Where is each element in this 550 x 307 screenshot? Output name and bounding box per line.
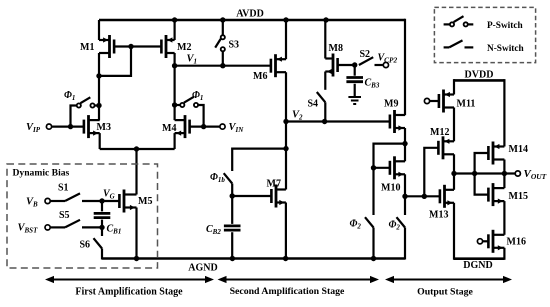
wire M11 drain to M12 source — [453, 108, 455, 142]
capacitor CB1 — [94, 212, 111, 215]
wire M4 gate to VIN — [190, 125, 220, 127]
wire M9 drain down to M10 — [404, 128, 406, 161]
wire CB1 node down to S6 — [101, 227, 103, 236]
transistor M7 — [271, 185, 286, 208]
node AVDD-S3 junction — [220, 17, 225, 22]
node M9-M10 junction — [402, 141, 407, 146]
node M10 source junction — [402, 194, 407, 199]
svg-text:M5: M5 — [138, 196, 152, 207]
transistor M9 — [390, 110, 405, 133]
transistor M2 — [161, 35, 174, 58]
node S3-V1 junction — [220, 63, 225, 68]
node S4-V2 junction — [322, 119, 327, 124]
node AVDD-M6 junction — [283, 17, 288, 22]
transistor M10 — [390, 156, 405, 179]
node V1 — [172, 63, 177, 68]
svg-text:Output Stage: Output Stage — [417, 287, 473, 298]
power rail DVDD — [454, 79, 504, 82]
legend dashed box — [434, 7, 535, 62]
wire CB3 to ground — [354, 84, 356, 97]
svg-text:M8: M8 — [329, 43, 343, 54]
wire AVDD to switch S3 — [222, 20, 224, 35]
terminal M16 gate — [477, 239, 482, 244]
svg-text:S5: S5 — [59, 210, 70, 221]
wire M7 gate node to M7 gate — [232, 195, 271, 197]
terminal M11 gate — [424, 98, 429, 103]
node AVDD-M8 junction — [323, 17, 328, 22]
wire AVDD to M8 top — [324, 20, 326, 59]
svg-text:M1: M1 — [80, 42, 94, 53]
wire PHI2 right to AGND rail end — [404, 228, 406, 260]
svg-text:M14: M14 — [509, 144, 528, 155]
node M12-M13 VOUT junction — [451, 171, 456, 176]
wire M8 gate node to CB3 — [354, 65, 356, 76]
wire V2 to M9 gate — [286, 120, 390, 122]
wire M4 source down — [174, 133, 176, 149]
wire M14 drain to VOUT node — [503, 160, 505, 189]
power rail AGND (bottom) — [102, 257, 405, 260]
svg-text:S2: S2 — [360, 49, 371, 60]
wire CB1 to S5 node — [101, 220, 103, 228]
switch S2 (N-switch) — [359, 57, 373, 65]
wire VB to switch S1 — [50, 200, 65, 202]
svg-text:M6: M6 — [253, 71, 267, 82]
wire M11 gate lead — [430, 100, 439, 102]
terminal VIP — [46, 124, 51, 129]
wire M12 drain to VOUT node and M13 drain — [453, 154, 455, 190]
node M14-M15 VOUT junction — [502, 171, 507, 176]
wire VIP to M3 gate — [52, 125, 85, 127]
node M7-AGND junction — [283, 256, 288, 261]
wire switch PHI1 right leads — [175, 104, 181, 106]
wire M10 source node to PHI2 right — [404, 196, 406, 215]
wire S1 to VG node and M5 gate — [82, 200, 119, 202]
power rail AVDD — [99, 19, 405, 22]
svg-text:M3: M3 — [97, 122, 111, 133]
svg-text:S4: S4 — [308, 99, 319, 110]
svg-text:AGND: AGND — [188, 263, 217, 274]
transistor M15 — [488, 183, 504, 206]
capacitor CB3 — [346, 76, 363, 79]
node V2 — [283, 119, 288, 124]
node PHI2left-AGND junction — [371, 256, 376, 261]
wire M6 drain to V2 and M7 drain — [285, 72, 287, 189]
node M2drain-PHI1 junction — [172, 102, 177, 107]
wire M13 source to DGND — [453, 203, 455, 260]
wire AVDD to M1 source — [98, 20, 100, 40]
wire PHI1b to M7 gate node — [231, 184, 233, 197]
wire V2 branch to PHI1b — [232, 149, 286, 171]
arrow second amplification stage span — [225, 279, 372, 281]
transistor M4 — [175, 115, 190, 138]
wire M5 source to AGND — [135, 208, 137, 259]
svg-text:S1: S1 — [58, 183, 69, 194]
dynamic bias dashed box — [7, 164, 158, 268]
wire S3 to node V1 — [222, 51, 224, 65]
wire VOUT — [454, 172, 515, 174]
node CB2-AGND junction — [230, 256, 235, 261]
node AVDD-M2 junction — [172, 17, 177, 22]
node M8 gate junction — [352, 62, 357, 67]
svg-text:First Amplification Stage: First Amplification Stage — [75, 287, 183, 298]
node VIN-switch junction — [201, 124, 206, 129]
transistor M16 — [488, 230, 504, 253]
arrow output stage span — [393, 279, 505, 281]
wire diode connection M1 — [99, 47, 131, 76]
switch PHI2 left (N-switch) — [365, 217, 374, 227]
switch PHI1b (N-switch) — [224, 173, 233, 183]
wire VG to capacitor CB1 — [101, 201, 103, 211]
wire M7 source to AGND — [285, 203, 287, 259]
node M7 gate junction — [230, 193, 235, 198]
node VIP-switch junction — [68, 124, 73, 129]
node tail junction — [134, 146, 139, 151]
svg-text:M9: M9 — [384, 98, 398, 109]
node gate tie-VOUT junction — [472, 171, 477, 176]
svg-text:Dynamic Bias: Dynamic Bias — [13, 168, 70, 179]
switch S6 (N-switch) — [94, 238, 103, 248]
wire M8 bottom to switch S4 — [324, 72, 326, 90]
wire M10 source down — [404, 174, 406, 196]
wire M3 source down — [99, 133, 101, 149]
wire M9 drain to M10 gate branch — [374, 144, 406, 171]
transistor M6 — [271, 54, 286, 77]
power rail DGND — [454, 257, 504, 260]
wire M10 gate — [374, 167, 390, 169]
wire M16 source to DGND — [503, 248, 505, 260]
wire M10 gate branch to PHI2 left — [372, 171, 374, 215]
wire AVDD to M6 source — [285, 20, 287, 59]
svg-text:M4: M4 — [162, 123, 176, 134]
wire switch PHI1 left to M3 drain — [95, 104, 99, 106]
svg-text:DGND: DGND — [463, 260, 492, 271]
wire M1 drain to M3 drain — [98, 53, 100, 120]
wire M1 gate tie to M2 gate — [114, 45, 161, 47]
wire M14-M15 gate tie — [475, 153, 489, 195]
wire M7 gate node to CB2 — [231, 196, 233, 224]
wire CB2 to AGND — [231, 232, 233, 258]
terminal VB — [45, 198, 50, 203]
wire M15 source to M16 — [503, 201, 505, 235]
capacitor CB2 — [224, 224, 241, 227]
wire switch PHI1 right to VIN wire — [198, 105, 204, 127]
switch S5 (N-switch) — [65, 220, 80, 228]
ground symbol below CB3 — [348, 96, 361, 98]
transistor M8 — [325, 54, 337, 77]
node M10 gate junction — [371, 165, 376, 170]
transistor M5 — [119, 190, 136, 213]
svg-text:P-Switch: P-Switch — [487, 21, 523, 31]
node VG — [99, 198, 104, 203]
wire node V1 to M6 gate — [175, 65, 271, 67]
svg-text:M2: M2 — [177, 42, 191, 53]
switch PHI2 right (N-switch) — [397, 217, 406, 227]
arrow first amplification stage span — [53, 279, 207, 281]
node V2-PHI1b junction — [283, 146, 288, 151]
wire branch up to M12 gate — [424, 148, 438, 197]
switch S1 (N-switch) — [65, 193, 80, 201]
switch S3 (P-switch) — [221, 35, 225, 39]
legend P-switch icon — [444, 23, 450, 25]
wire tail node — [100, 148, 175, 150]
svg-text:M11: M11 — [457, 99, 476, 110]
terminal VIN — [220, 124, 225, 129]
node gate tie junction — [128, 44, 133, 49]
switch S4 (N-switch) — [317, 92, 326, 102]
wire switch PHI1 left to VIP wire — [71, 106, 77, 127]
terminal VOUT — [515, 171, 520, 176]
terminal VCP2 — [383, 62, 388, 67]
switch PHI1 left (P-switch) — [77, 103, 81, 107]
svg-text:M16: M16 — [507, 236, 526, 247]
transistor M14 — [488, 142, 504, 165]
terminal VBST — [45, 225, 50, 230]
transistor M13 — [440, 185, 454, 208]
node M12 gate branch junction — [422, 194, 427, 199]
wire S2 to VCP2 terminal — [375, 64, 384, 66]
wire PHI2 left to AGND — [372, 228, 374, 259]
svg-text:S6: S6 — [80, 240, 91, 251]
wire M8 gate to S2/CB3 node — [338, 64, 355, 66]
svg-text:Second Amplification Stage: Second Amplification Stage — [230, 286, 345, 297]
svg-text:M10: M10 — [381, 182, 400, 193]
wire tail to M5 drain — [135, 149, 137, 195]
switch PHI1 right (P-switch) — [180, 103, 184, 107]
wire M16 gate lead — [483, 240, 489, 242]
node M5-AGND junction — [134, 256, 139, 261]
transistor M12 — [438, 136, 454, 159]
transistor M11 — [439, 90, 454, 113]
legend N-switch icon — [444, 46, 450, 48]
svg-text:DVDD: DVDD — [465, 70, 494, 81]
svg-text:M7: M7 — [267, 179, 281, 190]
node M1 drain junction — [96, 73, 101, 78]
transistor M1 — [99, 35, 114, 58]
wire AVDD to M2 source — [174, 20, 176, 40]
wire M2 drain to M4 drain — [174, 53, 176, 120]
node PHI1-M3 drain junction — [96, 103, 101, 108]
svg-text:M12: M12 — [430, 127, 449, 138]
svg-text:N-Switch: N-Switch — [487, 44, 524, 54]
wire S6 to AGND — [101, 249, 103, 260]
svg-text:AVDD: AVDD — [236, 9, 264, 20]
wire S5 to CB1 node — [82, 226, 102, 228]
svg-text:M13: M13 — [429, 210, 448, 221]
transistor M3 — [84, 115, 100, 138]
wire DVDD to M14 source — [503, 79, 505, 146]
wire AVDD rail right drop to M9 — [404, 19, 406, 116]
svg-text:M15: M15 — [509, 191, 528, 202]
wire S4 to node V2 wire — [324, 102, 326, 121]
node CB1-S5 junction — [99, 225, 104, 230]
wire M10 source node to M13 gate — [405, 195, 440, 197]
wire DVDD to M11 source — [453, 79, 455, 94]
wire VBST to switch S5 — [50, 226, 65, 228]
svg-text:S3: S3 — [229, 40, 240, 51]
